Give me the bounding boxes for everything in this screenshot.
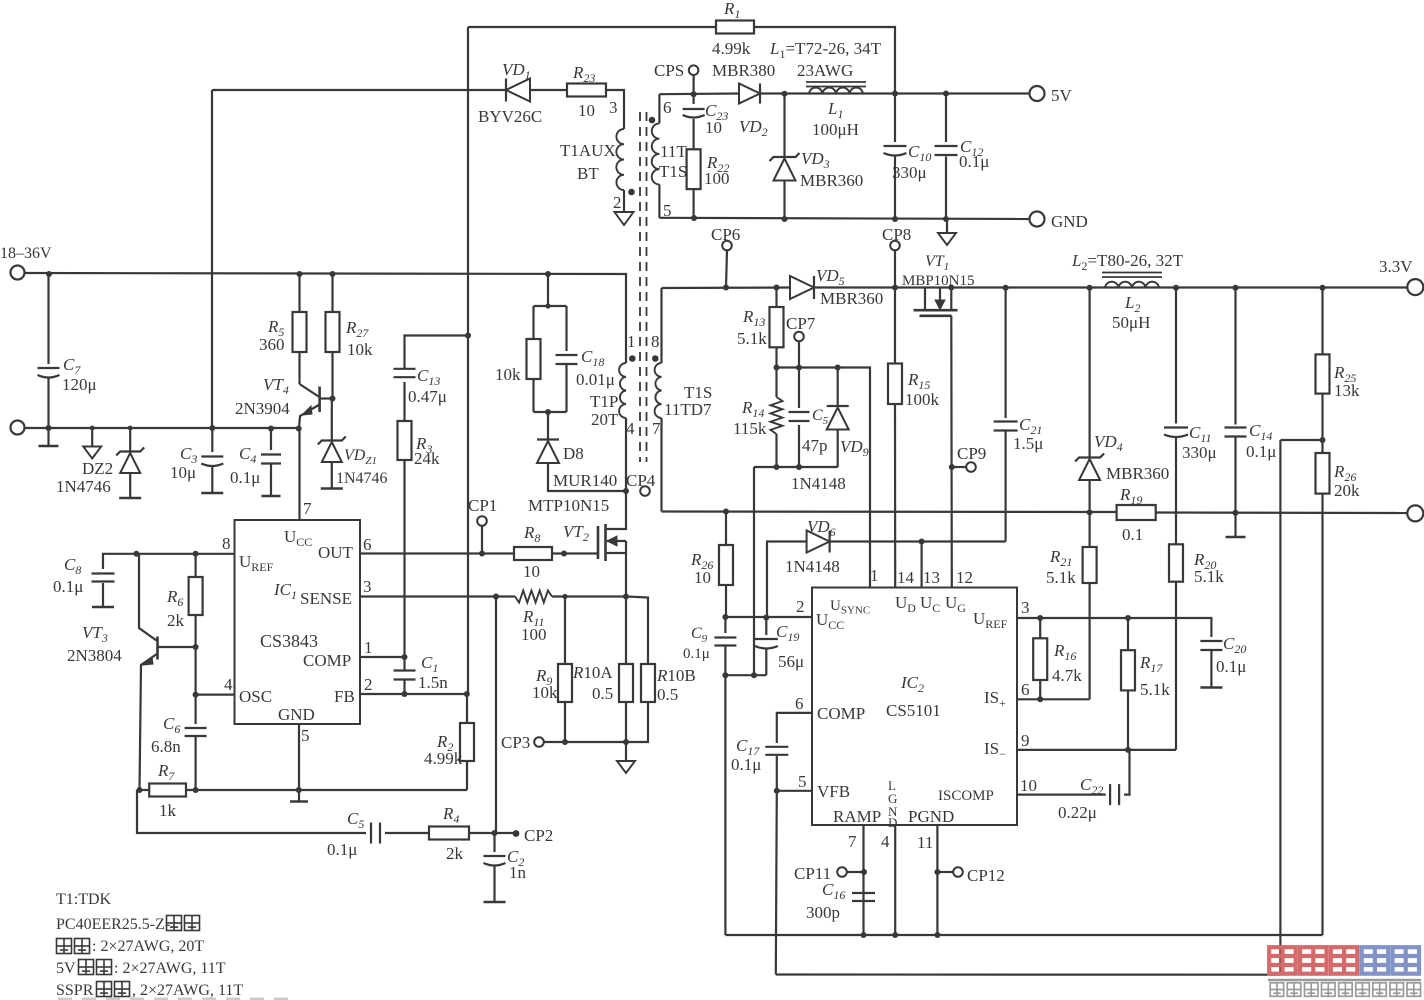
- svg-text:10k: 10k: [495, 365, 521, 384]
- svg-text:10k: 10k: [347, 340, 373, 359]
- svg-text:7: 7: [652, 419, 661, 438]
- svg-text:100: 100: [521, 625, 547, 644]
- svg-text:0.5: 0.5: [592, 684, 613, 703]
- svg-text:MBR360: MBR360: [800, 171, 863, 190]
- svg-text:2: 2: [364, 675, 373, 694]
- svg-text:11TD7: 11TD7: [664, 400, 712, 419]
- svg-text:1n: 1n: [509, 863, 527, 882]
- svg-text:5: 5: [301, 726, 310, 745]
- svg-text:330μ: 330μ: [892, 163, 927, 182]
- svg-text:L2=T80-26, 32T: L2=T80-26, 32T: [1071, 251, 1184, 273]
- svg-text:0.1μ: 0.1μ: [1216, 657, 1246, 676]
- svg-text:OUT: OUT: [318, 543, 354, 562]
- svg-text:0.1μ: 0.1μ: [683, 646, 710, 662]
- svg-text:1: 1: [364, 638, 373, 657]
- svg-text:0.1μ: 0.1μ: [230, 468, 260, 487]
- svg-text:120μ: 120μ: [62, 375, 97, 394]
- svg-text:4: 4: [881, 832, 890, 851]
- svg-text:: 2×27AWG, 20T: : 2×27AWG, 20T: [92, 938, 204, 955]
- svg-text:SENSE: SENSE: [300, 589, 352, 608]
- svg-text:MBR380: MBR380: [712, 61, 775, 80]
- svg-text:MBR360: MBR360: [1106, 464, 1169, 483]
- svg-text:BT: BT: [577, 164, 599, 183]
- svg-text:20k: 20k: [1334, 481, 1360, 500]
- svg-text:330μ: 330μ: [1182, 443, 1217, 462]
- svg-text:CP1: CP1: [468, 496, 497, 515]
- svg-text:24k: 24k: [414, 449, 440, 468]
- svg-text:SSPR: SSPR: [56, 982, 94, 999]
- svg-text:R10A: R10A: [572, 663, 613, 682]
- svg-text:1N4746: 1N4746: [336, 470, 388, 487]
- svg-text:100: 100: [704, 169, 730, 188]
- svg-text:ISCOMP: ISCOMP: [938, 788, 994, 804]
- svg-text:CP2: CP2: [524, 826, 553, 845]
- svg-text:1: 1: [870, 566, 879, 585]
- svg-text:7: 7: [848, 832, 857, 851]
- svg-text:100μH: 100μH: [812, 120, 859, 139]
- svg-text:1N4148: 1N4148: [785, 557, 840, 576]
- svg-text:5.1k: 5.1k: [737, 329, 767, 348]
- svg-text:PGND: PGND: [908, 807, 954, 826]
- svg-text:8: 8: [651, 332, 660, 351]
- svg-text:6: 6: [663, 98, 672, 117]
- svg-text:3: 3: [363, 577, 372, 596]
- svg-text:0.22μ: 0.22μ: [1058, 803, 1097, 822]
- svg-text:50μH: 50μH: [1112, 313, 1150, 332]
- svg-text:7: 7: [303, 499, 312, 518]
- svg-text:T1S: T1S: [659, 162, 687, 181]
- svg-text:, 2×27AWG, 11T: , 2×27AWG, 11T: [132, 982, 243, 999]
- svg-text:OSC: OSC: [239, 687, 272, 706]
- svg-text:5.1k: 5.1k: [1194, 567, 1224, 586]
- svg-text:CP7: CP7: [786, 314, 816, 333]
- svg-text:300p: 300p: [806, 903, 840, 922]
- svg-text:8: 8: [222, 534, 231, 553]
- svg-text:T1:TDK: T1:TDK: [56, 891, 112, 908]
- svg-text:0.01μ: 0.01μ: [576, 370, 615, 389]
- svg-text:2: 2: [796, 597, 805, 616]
- svg-text:47p: 47p: [802, 436, 828, 455]
- svg-text:0.1μ: 0.1μ: [731, 755, 761, 774]
- svg-text:BYV26C: BYV26C: [478, 107, 542, 126]
- svg-text:0.1μ: 0.1μ: [1246, 442, 1276, 461]
- svg-text:CP12: CP12: [967, 866, 1005, 885]
- svg-text:1N4148: 1N4148: [791, 474, 846, 493]
- svg-text:RAMP: RAMP: [833, 807, 881, 826]
- svg-text:4: 4: [224, 675, 233, 694]
- svg-text:T1AUX: T1AUX: [560, 141, 616, 160]
- svg-text:6: 6: [363, 535, 372, 554]
- svg-text:20T: 20T: [591, 410, 619, 429]
- svg-text:CP4: CP4: [626, 471, 656, 490]
- svg-text:360: 360: [259, 335, 285, 354]
- svg-text:VFB: VFB: [817, 782, 850, 801]
- svg-text:5V: 5V: [56, 960, 76, 977]
- svg-text:2: 2: [613, 193, 622, 212]
- svg-text:5V: 5V: [1051, 86, 1073, 105]
- svg-text:14: 14: [897, 568, 915, 587]
- svg-text:2N3804: 2N3804: [67, 646, 122, 665]
- svg-text:5.1k: 5.1k: [1140, 680, 1170, 699]
- svg-text:13k: 13k: [1334, 381, 1360, 400]
- svg-text:11: 11: [917, 833, 933, 852]
- svg-text:6.8n: 6.8n: [151, 737, 181, 756]
- svg-text:18–36V: 18–36V: [0, 245, 52, 262]
- svg-text:CS5101: CS5101: [886, 701, 941, 720]
- svg-text:4.7k: 4.7k: [1052, 666, 1082, 685]
- svg-text:10: 10: [1020, 776, 1037, 795]
- svg-text:10k: 10k: [532, 683, 558, 702]
- svg-text:0.47μ: 0.47μ: [408, 387, 447, 406]
- svg-text:MBP10N15: MBP10N15: [902, 273, 975, 289]
- svg-text:115k: 115k: [733, 419, 767, 438]
- svg-text:0.1μ: 0.1μ: [959, 152, 989, 171]
- svg-text:MUR140: MUR140: [553, 471, 617, 490]
- svg-text:3.3V: 3.3V: [1379, 257, 1413, 276]
- svg-text:1: 1: [627, 332, 636, 351]
- svg-text:0.1μ: 0.1μ: [53, 577, 83, 596]
- svg-text:D8: D8: [563, 444, 584, 463]
- svg-text:6: 6: [1021, 680, 1030, 699]
- svg-text:23AWG: 23AWG: [797, 61, 853, 80]
- svg-text:2k: 2k: [167, 611, 185, 630]
- svg-text:9: 9: [1021, 731, 1030, 750]
- svg-text:56μ: 56μ: [778, 652, 804, 671]
- svg-text:1.5μ: 1.5μ: [1013, 434, 1043, 453]
- svg-text:: 2×27AWG, 11T: : 2×27AWG, 11T: [114, 960, 226, 977]
- svg-text:10: 10: [578, 101, 595, 120]
- svg-text:FB: FB: [334, 687, 355, 706]
- svg-text:11T: 11T: [660, 142, 687, 161]
- svg-text:0.1: 0.1: [1122, 525, 1143, 544]
- svg-text:CS3843: CS3843: [260, 631, 318, 651]
- svg-text:0.1μ: 0.1μ: [327, 840, 357, 859]
- svg-text:T1P: T1P: [590, 392, 618, 411]
- svg-text:3: 3: [609, 98, 618, 117]
- svg-text:DZ2: DZ2: [82, 459, 113, 478]
- svg-text:MBR360: MBR360: [820, 289, 883, 308]
- svg-text:GND: GND: [1051, 212, 1088, 231]
- svg-text:10: 10: [523, 562, 540, 581]
- svg-text:10: 10: [694, 568, 711, 587]
- svg-text:CP3: CP3: [501, 733, 530, 752]
- svg-text:2N3904: 2N3904: [235, 399, 290, 418]
- svg-text:R10B: R10B: [656, 666, 696, 685]
- svg-text:CPS: CPS: [654, 61, 684, 80]
- svg-text:4: 4: [626, 419, 635, 438]
- svg-text:10μ: 10μ: [170, 463, 196, 482]
- svg-text:0.5: 0.5: [657, 685, 678, 704]
- svg-text:10: 10: [705, 118, 722, 137]
- svg-text:1k: 1k: [159, 801, 177, 820]
- svg-text:5.1k: 5.1k: [1046, 568, 1076, 587]
- svg-text:MTP10N15: MTP10N15: [528, 496, 609, 515]
- svg-text:GND: GND: [278, 705, 315, 724]
- svg-text:CP9: CP9: [957, 444, 986, 463]
- svg-text:L1=T72-26, 34T: L1=T72-26, 34T: [769, 39, 882, 61]
- svg-text:6: 6: [795, 694, 804, 713]
- svg-text:5: 5: [798, 772, 807, 791]
- svg-text:12: 12: [956, 568, 973, 587]
- svg-text:100k: 100k: [905, 390, 940, 409]
- svg-text:4.99k: 4.99k: [712, 39, 751, 58]
- svg-text:1.5n: 1.5n: [418, 673, 448, 692]
- svg-text:3: 3: [1021, 598, 1030, 617]
- svg-text:COMP: COMP: [817, 704, 865, 723]
- svg-text:1N4746: 1N4746: [56, 477, 111, 496]
- svg-text:COMP: COMP: [303, 651, 351, 670]
- svg-text:2k: 2k: [446, 844, 464, 863]
- svg-text:PC40EER25.5-Z-: PC40EER25.5-Z-: [56, 916, 170, 933]
- svg-text:4.99k: 4.99k: [424, 749, 463, 768]
- svg-text:13: 13: [923, 568, 940, 587]
